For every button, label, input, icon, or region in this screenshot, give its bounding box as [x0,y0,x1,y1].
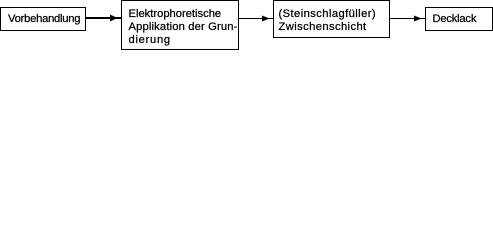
svg-text:(Steinschlagfüller): (Steinschlagfüller) [279,8,377,20]
svg-text:Decklack: Decklack [433,13,477,25]
box 4 (Decklack) [425,7,493,31]
wire: arrow 1 shaft [86,17,121,19]
arrow 1 head [110,15,118,22]
svg-text:Applikation der Grun-: Applikation der Grun- [129,21,238,33]
svg-text:Vorbehandlung: Vorbehandlung [8,13,80,25]
background [0,0,493,50]
wire: arrow 3 shaft [390,18,425,19]
svg-text:dierung: dierung [129,34,171,46]
box 3 (Zwischenschicht) [273,0,390,38]
arrow 2 head [262,16,270,22]
box 1 (Vorbehandlung) [0,7,86,31]
box 2 (Elektrophoretische Applikation der Grundierung) [121,0,239,50]
wire: arrow 2 shaft [239,18,273,19]
arrow 3 head [414,16,422,22]
svg-text:Zwischenschicht: Zwischenschicht [279,21,368,33]
svg-text:Elektrophoretische: Elektrophoretische [129,8,222,20]
